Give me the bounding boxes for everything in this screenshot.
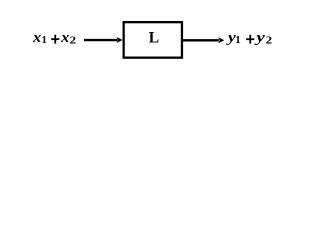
svg-text:2: 2 [266, 34, 273, 46]
wire output arrow [183, 37, 224, 43]
node x1+x2 input label [32, 30, 77, 46]
svg-text:1: 1 [235, 35, 240, 46]
plus sign of output label [246, 35, 254, 44]
svg-text:x: x [32, 30, 42, 46]
svg-text:x: x [60, 30, 70, 46]
plus sign of input label [51, 35, 59, 44]
svg-text:2: 2 [70, 34, 77, 46]
svg-text:L: L [149, 29, 159, 46]
wire input arrow [84, 37, 123, 43]
block U1 system L [124, 22, 182, 58]
node y1+y2 output label [226, 30, 273, 46]
svg-text:1: 1 [42, 35, 47, 46]
svg-text:y: y [254, 30, 265, 46]
